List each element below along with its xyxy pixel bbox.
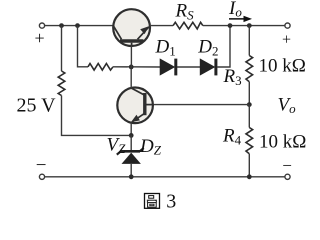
node dot top rail B [75, 23, 80, 28]
caption glyph tu (figure) [145, 194, 160, 209]
terminal input - [39, 174, 44, 179]
resistor R4 [246, 128, 253, 154]
svg-text:+: + [35, 28, 45, 48]
node dot zener top [129, 133, 134, 138]
node dot Q1 base node [129, 65, 134, 70]
diode D1 [160, 59, 176, 76]
transistor Q1 [113, 9, 150, 46]
terminal output + [285, 23, 290, 28]
svg-text:3: 3 [166, 191, 176, 213]
svg-text:25 V: 25 V [17, 95, 57, 117]
wire D1 to D2 [177, 66, 200, 68]
svg-text:10 kΩ: 10 kΩ [259, 131, 306, 152]
diode D2 [200, 59, 216, 76]
svg-text:Io: Io [228, 0, 242, 20]
resistor RS [173, 22, 203, 29]
wire top rail right [203, 25, 285, 27]
wire base-feed to node [113, 66, 161, 68]
node dot rail D2 [228, 23, 233, 28]
terminal input + [39, 23, 44, 28]
svg-text:R3: R3 [223, 66, 242, 88]
transistor Q2 [117, 88, 153, 124]
node dot rail R3 [247, 23, 252, 28]
wire top rail left [45, 25, 114, 27]
wire second branch down [78, 26, 89, 67]
wire Q2 collector up [130, 67, 132, 88]
resistor base-feed horizontal [88, 64, 113, 71]
wire Q1 emitter to RS [150, 25, 173, 27]
svg-text:−: − [36, 155, 47, 176]
wire R3 bottom lead [248, 82, 250, 105]
wire left branch down [61, 26, 63, 71]
arrow Io [229, 16, 252, 22]
svg-text:D1: D1 [155, 37, 176, 59]
zener diode DZ [117, 135, 144, 176]
svg-text:Vo: Vo [278, 95, 297, 117]
wire R4 bottom lead [248, 154, 250, 177]
svg-text:D2: D2 [197, 37, 218, 59]
wire R4 top lead [248, 105, 250, 128]
svg-text:+: + [282, 31, 291, 48]
node dot top rail A [59, 23, 64, 28]
wire D2 up to rail [217, 26, 230, 67]
node Vo [247, 102, 252, 107]
terminal output - [285, 174, 290, 179]
svg-text:VZ: VZ [107, 135, 127, 157]
wire left branch to zener node [62, 96, 132, 136]
svg-text:DZ: DZ [139, 136, 162, 158]
resistor left (zener feed) [58, 71, 65, 96]
node dot bottom zener [129, 174, 134, 179]
svg-text:RS: RS [175, 1, 195, 23]
node dot bottom R4 [247, 174, 252, 179]
wire bottom rail [45, 176, 285, 178]
svg-text:R4: R4 [222, 125, 242, 147]
wire R3 top lead [248, 26, 250, 56]
wire Q2 base to divider [153, 104, 249, 106]
resistor R3 [246, 56, 253, 82]
wire Q1 base lead [130, 46, 132, 68]
svg-text:10 kΩ: 10 kΩ [259, 56, 306, 77]
wire Q2 emitter down [130, 123, 132, 136]
svg-text:−: − [282, 156, 292, 175]
